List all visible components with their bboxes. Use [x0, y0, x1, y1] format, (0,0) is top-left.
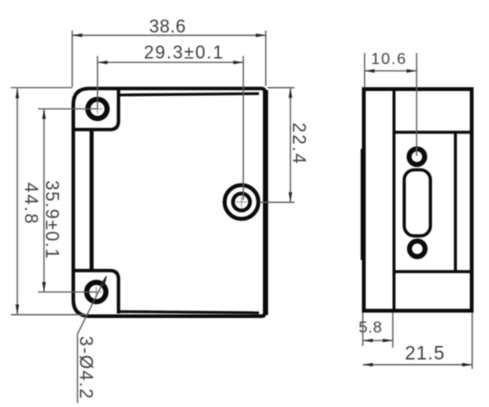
dim 35.9 bottom extension line — [38, 291, 97, 293]
dim 29.3 extension line left — [97, 56, 99, 108]
dim 21.5 left arrow — [363, 363, 373, 367]
svg-text:38.6: 38.6 — [149, 17, 186, 37]
dim 35.9 top extension line — [38, 108, 98, 110]
bottom tab inner boundary — [75, 271, 119, 314]
dim 10.6 extension line left — [364, 53, 366, 88]
svg-text:10.6: 10.6 — [371, 51, 407, 68]
dsub top jackscrew circle — [409, 149, 425, 165]
dim 21.5 line — [363, 364, 472, 366]
svg-text:22.4: 22.4 — [289, 122, 309, 165]
dim 22.4 bottom extension line — [260, 201, 295, 203]
dim 29.3 line — [98, 61, 244, 63]
bottom mounting hole — [87, 282, 106, 301]
dim 44.8 bottom extension line — [11, 314, 88, 316]
leader line 3-ø4.2 — [78, 277, 107, 404]
dim 44.8 bottom arrow — [16, 305, 20, 315]
dim 10.6 right arrow — [407, 69, 417, 73]
side view plate thickness line — [393, 89, 396, 311]
dim 38.6 left arrow — [72, 34, 82, 38]
dim 10.6 line — [365, 70, 417, 72]
dim 5.8 right arrow — [383, 339, 393, 343]
dim 35.9 bottom arrow — [42, 282, 46, 292]
dim 44.8 line — [16, 88, 18, 314]
dim 44.8 top extension line — [11, 87, 72, 89]
side view left lip — [361, 149, 363, 260]
dim 22.4 top arrow — [289, 88, 293, 98]
svg-text:35.9±0.1: 35.9±0.1 — [42, 180, 62, 260]
plate right edge thickening — [266, 90, 268, 315]
svg-text:5.8: 5.8 — [359, 320, 383, 337]
dim 22.4 bottom arrow — [289, 192, 293, 202]
dim 35.9 top arrow — [42, 109, 46, 119]
dim 29.3 right arrow — [233, 61, 243, 65]
dsub bottom jackscrew circle — [410, 241, 426, 257]
svg-text:3-Ø4.2: 3-Ø4.2 — [76, 336, 96, 400]
side view upper step line — [394, 131, 472, 134]
side view outer outline — [364, 89, 472, 311]
dim 38.6 right arrow — [256, 34, 266, 38]
dim 35.9 line — [43, 109, 45, 292]
dim 29.3 left arrow — [98, 61, 108, 65]
dim 5.8 line — [363, 340, 393, 342]
side view inner right line — [454, 132, 457, 271]
top mounting hole — [88, 99, 107, 118]
dim 5.8 extension line left — [362, 313, 364, 347]
front view inner rim line top — [119, 94, 260, 95]
dim 21.5 right arrow — [462, 363, 472, 367]
boss center mark — [236, 197, 247, 208]
dim 38.6 extension line left — [71, 31, 73, 88]
dim 5.8 extension line right — [392, 313, 394, 348]
dim 38.6 line — [72, 34, 266, 36]
dim 44.8 top arrow — [16, 88, 20, 98]
svg-text:21.5: 21.5 — [405, 344, 445, 365]
front view inner rim line bottom — [119, 312, 260, 313]
leader arrowhead — [100, 275, 107, 286]
dim 22.4 line — [289, 88, 291, 203]
dim 10.6 extension line center — [416, 53, 418, 156]
side view lower step line — [394, 270, 472, 273]
bottom hole center mark — [91, 287, 101, 297]
svg-text:29.3±0.1: 29.3±0.1 — [144, 43, 224, 63]
dim 22.4 top extension line — [268, 87, 295, 89]
dim 5.8 left arrow — [363, 339, 373, 343]
connector boss inner circle — [233, 194, 250, 211]
dim 21.5 extension line right — [471, 313, 473, 370]
connector boss outer circle — [225, 185, 259, 219]
dim 29.3 extension line right — [242, 56, 244, 200]
dsub body oval — [404, 170, 430, 236]
front view plate outline — [73, 89, 264, 317]
top hole center mark — [93, 104, 103, 114]
top tab inner boundary — [75, 88, 119, 130]
plate main left edge between tabs — [90, 128, 94, 272]
dim 38.6 extension line right — [265, 31, 267, 87]
svg-text:44.8: 44.8 — [21, 182, 41, 225]
dim 10.6 left arrow — [365, 69, 375, 73]
